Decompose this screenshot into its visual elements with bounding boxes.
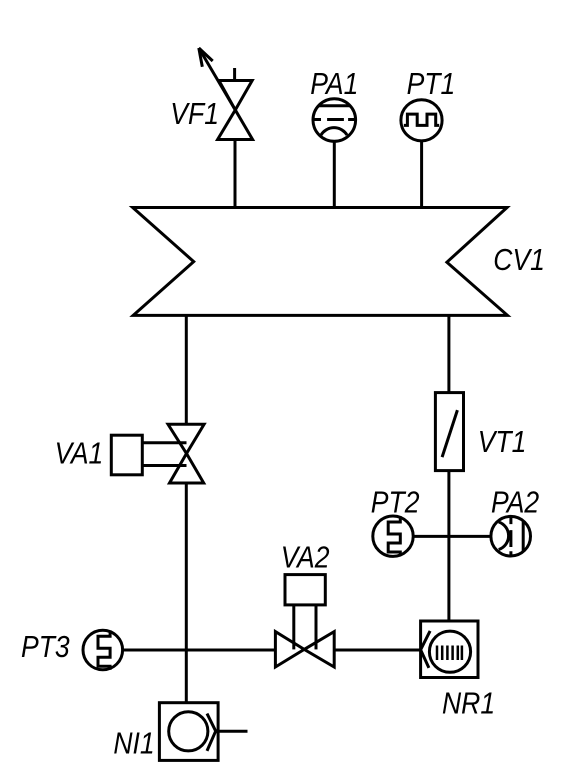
gauge PT2	[373, 516, 413, 556]
chamber CV1	[133, 208, 508, 316]
svg-text:PT2: PT2	[371, 486, 420, 520]
svg-text:PA1: PA1	[310, 67, 358, 101]
svg-text:VA1: VA1	[55, 437, 104, 471]
svg-text:VA2: VA2	[281, 541, 330, 575]
svg-text:VT1: VT1	[478, 425, 527, 459]
wire PT3 to VA2	[123, 649, 276, 652]
svg-text:PT3: PT3	[21, 630, 70, 664]
svg-text:PT1: PT1	[407, 67, 456, 101]
gauge PA2	[491, 516, 531, 556]
wire CV1 to VA1	[185, 315, 188, 424]
transducer VT1	[435, 393, 463, 471]
wire PT1 to CV1	[420, 141, 423, 208]
wire VA1 down to NI1	[185, 483, 188, 703]
wire VT1 down to NR1	[447, 471, 450, 621]
svg-text:VF1: VF1	[170, 97, 219, 131]
svg-text:NR1: NR1	[442, 687, 495, 721]
wire VA2 to NR1	[334, 649, 420, 652]
svg-text:NI1: NI1	[113, 727, 154, 761]
wire CV1 to VT1	[447, 315, 450, 393]
wire PA1 to CV1	[333, 141, 336, 207]
valve VA2	[275, 575, 334, 667]
svg-text:CV1: CV1	[493, 244, 545, 278]
gauge PA1	[313, 99, 356, 142]
valve VA1	[111, 424, 204, 483]
wire VF1 to CV1	[234, 140, 237, 208]
gauge PT3	[83, 630, 123, 670]
wire PT2 to PA2	[413, 535, 491, 538]
valve VF1	[199, 48, 253, 140]
pump NI1	[159, 703, 247, 761]
gauge PT1	[401, 100, 442, 141]
pump NR1	[421, 621, 478, 678]
svg-text:PA2: PA2	[491, 486, 539, 520]
